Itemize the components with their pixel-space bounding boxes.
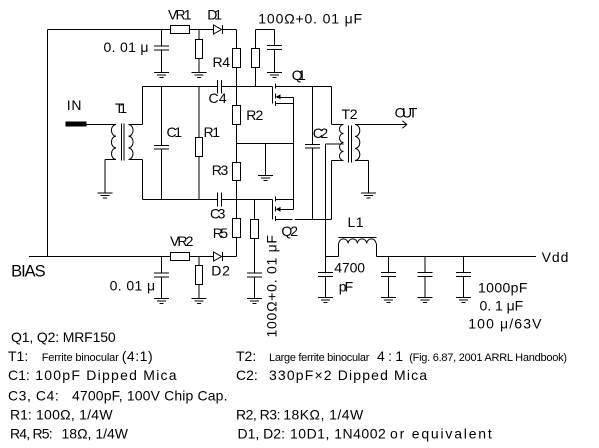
capacitor C2 top lead (312, 87, 314, 145)
svg-text:C1: C1 (167, 124, 183, 140)
capacitor bypass 2 plates (418, 272, 433, 274)
ground under bypass 1 (381, 297, 396, 299)
capacitor bypass 3 lead (463, 257, 465, 273)
inductor L1 risers (338, 244, 340, 257)
svg-text:pF: pF (339, 279, 354, 295)
transformer T1 core lines (121, 124, 123, 161)
wire T1 secondary bottom to bus (129, 159, 143, 161)
inductor L1 bumps (339, 239, 376, 244)
svg-text:Q1: Q1 (292, 67, 306, 83)
bottom gate bus left segment (143, 199, 218, 201)
wire snubber top link (256, 29, 275, 31)
wire VR2 to D2 (190, 256, 214, 258)
svg-text:OUT: OUT (395, 104, 418, 120)
transformer T1 primary winding (111, 125, 116, 160)
resistor R4 body (233, 49, 241, 68)
wire down to R4 (236, 30, 238, 49)
ground under VR2 lower leg (192, 298, 207, 300)
capacitor 0.01u bottom plates (154, 272, 169, 274)
capacitor bypass 3 lead to ground (463, 277, 465, 298)
svg-text:VR1: VR1 (168, 6, 192, 22)
wire T2 secondary bottom to ground (355, 160, 369, 162)
wire midpoint ground drop (265, 144, 267, 176)
resistor R5 bottom lead (236, 238, 238, 257)
svg-text:IN: IN (67, 97, 82, 113)
transistor Q2 source arrow shaft (277, 209, 294, 211)
diode D1 triangle (214, 25, 222, 34)
svg-text:D2: D2 (211, 263, 230, 279)
resistor R3 top lead (236, 144, 238, 163)
svg-text:R4, R5:18Ω, 1/4W: R4, R5:18Ω, 1/4W (10, 425, 129, 441)
ground under 4700pF (318, 297, 333, 299)
svg-text:BIAS: BIAS (11, 262, 46, 280)
capacitor 0.01u bottom lead (161, 257, 163, 274)
ground under bypass 2 (418, 297, 433, 299)
diode D2 triangle (214, 252, 222, 261)
capacitor C4 plates (217, 80, 219, 94)
svg-text:Vdd: Vdd (542, 249, 569, 265)
svg-text:R1:100Ω, 1/4W: R1:100Ω, 1/4W (10, 406, 113, 422)
svg-text:Q2: Q2 (281, 223, 298, 239)
svg-text:1000pF: 1000pF (478, 280, 527, 296)
wire left vertical rail (47, 30, 49, 257)
resistor 100ohm snubber bottom top lead (254, 200, 256, 220)
capacitor 0.01u top: lead to ground (161, 50, 163, 73)
wire Q1 drain riser to T2 (331, 87, 333, 125)
wire BIAS horizontal (29, 256, 171, 258)
resistor VR1 body (171, 26, 190, 34)
capacitor snubber bottom lead to ground (254, 277, 256, 299)
wire Vdd rail right of L1 (377, 256, 537, 258)
wire D1 to R4 corner (223, 29, 237, 31)
svg-text:Q1, Q2: MRF150: Q1, Q2: MRF150 (11, 329, 116, 345)
arrowhead OUT (402, 121, 407, 128)
svg-text:D1, D2:10D1, 1N4002or equivale: D1, D2:10D1, 1N4002or equivalent (238, 425, 494, 441)
capacitor 0.01u bottom lead to ground (161, 277, 163, 299)
wire Vdd rail left of L1 (326, 256, 339, 258)
resistor VR2 body (171, 253, 190, 261)
transformer T2 core lines (348, 126, 350, 163)
capacitor C3 plates (217, 193, 219, 207)
capacitor bypass 1 lead to ground (388, 277, 390, 298)
capacitor 0.01uF snubber top: lead (274, 30, 276, 46)
capacitor C1 top lead (161, 87, 163, 146)
ground under T2 secondary (361, 192, 376, 194)
top gate bus right segment to Q1 gate (222, 86, 273, 88)
transistor Q2 gate bar (272, 200, 274, 220)
wire T1 primary bottom exit (105, 159, 116, 161)
transformer T2 primary winding (340, 125, 344, 161)
resistor VR1 lower leg body (196, 40, 203, 59)
resistor R3 body (233, 163, 241, 181)
wire T2 center tap (326, 143, 344, 145)
svg-text:T1: T1 (115, 100, 127, 116)
wire snubber resistor to bus (255, 68, 257, 87)
wire T2 secondary top OUT line (355, 124, 407, 126)
svg-text:100Ω+0. 01 μF: 100Ω+0. 01 μF (264, 235, 280, 338)
resistor R2 body (233, 106, 241, 125)
svg-text:R1: R1 (204, 124, 221, 140)
capacitor C1 bottom lead (161, 149, 163, 200)
wire snubber resistor up (255, 30, 257, 49)
capacitor 0.01u top: plates (154, 45, 169, 47)
capacitor bypass 1 lead (388, 257, 390, 273)
transistor Q2 channel segments (275, 197, 277, 202)
capacitor bypass 1 plates (381, 272, 396, 274)
transistor Q2 top stub (276, 199, 294, 201)
svg-text:R4: R4 (213, 54, 231, 70)
capacitor C1 plates (154, 145, 169, 147)
svg-text:C2: C2 (313, 125, 329, 141)
transistor Q1 drain line (276, 86, 332, 88)
resistor VR2 lower leg lead to ground (198, 285, 200, 299)
capacitor C2 bottom lead (312, 148, 314, 220)
transistor Q1 gate bar (272, 87, 274, 104)
capacitor bypass 2 lead to ground (424, 277, 426, 298)
svg-text:R3: R3 (212, 162, 229, 178)
capacitor bypass 2 lead (424, 257, 426, 273)
resistor VR2 lower leg body (196, 266, 203, 285)
ground under T1 (98, 192, 113, 194)
ground under snubber top (267, 72, 282, 74)
resistor VR2 lower leg lead (198, 257, 200, 266)
diode D1 cathode bar (222, 25, 224, 34)
transistor Q1 source arrow shaft (277, 97, 294, 99)
capacitor C2 plates (305, 144, 320, 146)
resistor 100ohm snubber bottom body (251, 220, 259, 239)
svg-text:0. 01 μ: 0. 01 μ (104, 39, 149, 55)
svg-text:R2, R3:18KΩ, 1/4W: R2, R3:18KΩ, 1/4W (236, 406, 364, 422)
wire top bias rail horizontal (48, 29, 171, 31)
capacitor 4700pF lead (325, 257, 327, 273)
inductor L1 top line (339, 237, 377, 239)
resistor VR1 lower leg: lead down (198, 30, 200, 40)
node IN terminal bar (66, 122, 86, 126)
ground under 0.01u bottom (154, 298, 169, 300)
resistor R1 top lead (198, 87, 200, 138)
wire VR1 to D1 (190, 29, 214, 31)
ground at midpoint (258, 175, 273, 177)
bottom gate bus right segment to Q2 gate (222, 199, 273, 201)
top gate bus left segment (143, 86, 218, 88)
wire IN to T1 (86, 124, 115, 126)
svg-text:VR2: VR2 (170, 233, 194, 249)
resistor VR1 lower leg: lead to ground (198, 59, 200, 73)
transistor Q1 source stub (276, 103, 294, 105)
resistor R3 bottom lead (236, 181, 238, 200)
capacitor 0.01u top: lead down (161, 30, 163, 47)
wire T1 secondary top to bus (129, 124, 143, 126)
svg-text:C4: C4 (209, 90, 227, 106)
ground under 0.01u top (154, 72, 169, 74)
capacitor 0.01uF snubber bottom plates (247, 272, 262, 274)
ground under VR1 lower leg (192, 72, 207, 74)
diode D2 cathode bar (222, 252, 224, 261)
capacitor 4700pF lead to ground (325, 277, 327, 298)
resistor R2 bottom lead (236, 125, 238, 144)
capacitor 4700pF plates (318, 272, 333, 274)
svg-text:C3: C3 (210, 205, 226, 221)
svg-text:0. 1 μF: 0. 1 μF (480, 297, 524, 313)
svg-text:C3, C4:4700pF, 100V Chip Cap.: C3, C4:4700pF, 100V Chip Cap. (8, 387, 228, 403)
ground under snubber bottom (247, 298, 262, 300)
resistor R1 bottom lead (198, 157, 200, 200)
capacitor 0.01uF snubber top: plates (267, 45, 282, 47)
transistor Q1 channel segments (275, 84, 277, 89)
wire midpoint rail (237, 143, 294, 145)
svg-text:R5: R5 (213, 225, 229, 241)
capacitor 0.01uF snubber top: lead to ground (274, 50, 276, 73)
wire R4 to top gate bus (236, 68, 238, 87)
wire common source vertical (293, 98, 295, 210)
resistor R5 body (233, 219, 241, 238)
resistor R2 top lead (236, 87, 238, 106)
ground under bypass 3 (456, 297, 471, 299)
transformer T2 secondary winding (355, 125, 360, 161)
svg-text:L1: L1 (348, 214, 364, 230)
svg-text:100Ω+0. 01 μF: 100Ω+0. 01 μF (258, 10, 362, 26)
wire snubber bottom resistor to cap (254, 239, 256, 274)
transistor Q2 drain line segments (276, 219, 293, 221)
svg-text:D1: D1 (207, 6, 222, 22)
svg-text:R2: R2 (246, 107, 263, 123)
resistor 100ohm snubber top body (252, 49, 260, 68)
resistor R1 body (196, 138, 203, 157)
transformer T1 secondary winding (129, 125, 134, 160)
transistor Q1 source arrowhead (276, 94, 281, 99)
svg-text:0. 01 μ: 0. 01 μ (110, 277, 156, 293)
svg-text:T2: T2 (342, 106, 358, 122)
resistor R5 top lead (236, 200, 238, 219)
wire D2 to R5 (223, 256, 237, 258)
wire Q2 drain riser to T2 (331, 161, 333, 220)
transistor Q2 source arrowhead (276, 207, 281, 212)
capacitor bypass 3 plates (456, 272, 471, 274)
svg-text:4700: 4700 (334, 260, 365, 276)
